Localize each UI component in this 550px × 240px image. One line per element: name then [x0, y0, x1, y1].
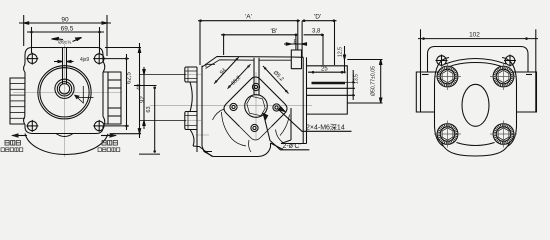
svg-text:'A': 'A'	[245, 14, 252, 21]
svg-text:2-ø'C': 2-ø'C'	[283, 143, 301, 150]
svg-text:'B': 'B'	[271, 28, 278, 35]
svg-text:63: 63	[146, 106, 152, 112]
svg-text:69,5: 69,5	[61, 26, 74, 33]
svg-text:90: 90	[61, 17, 69, 24]
svg-text:25: 25	[321, 67, 328, 73]
svg-text:12,5: 12,5	[337, 47, 343, 57]
svg-text:92: 92	[140, 96, 146, 103]
svg-text:'D': 'D'	[314, 14, 321, 21]
svg-text:2×4-M6深14: 2×4-M6深14	[306, 123, 345, 132]
svg-text:Ø9±¾: Ø9±¾	[58, 40, 72, 46]
svg-text:48: 48	[137, 84, 143, 90]
svg-text:13,5: 13,5	[354, 74, 360, 84]
svg-text:4js9: 4js9	[80, 57, 89, 63]
svg-text:3,8: 3,8	[312, 29, 321, 35]
svg-text:62,5: 62,5	[127, 72, 133, 84]
svg-text:102: 102	[469, 32, 480, 39]
svg-text:Ø50,77±0,05: Ø50,77±0,05	[370, 66, 376, 96]
